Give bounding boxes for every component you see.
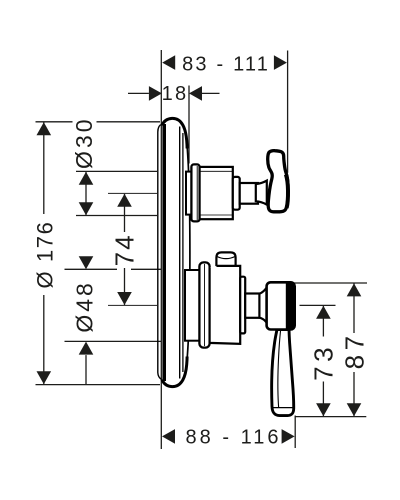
lever knob disc (267, 282, 295, 329)
wall extension line (160, 50, 162, 449)
bottom valve ring inner line (204, 264, 206, 346)
bottom valve stem (245, 294, 259, 318)
extension line sleeve bottom (Ø30) (76, 215, 157, 217)
escutcheon plate bottom edge (162, 357, 187, 387)
svg-text:88 - 116: 88 - 116 (186, 427, 282, 449)
dimension Ø30 arrow up (79, 172, 94, 185)
extension line handle front (83-111) (287, 51, 289, 173)
svg-text:74: 74 (110, 233, 140, 266)
dimension Ø48 arrow up (below) with tail (79, 342, 94, 355)
lever handle tip cap line (273, 407, 293, 409)
svg-text:Ø30: Ø30 (71, 116, 97, 168)
dimension Ø48 arrow down (above) (79, 256, 94, 269)
extension line knob top (87) (293, 282, 367, 284)
dimension 87 arrow down (347, 403, 362, 416)
dimension 73 arrow up (316, 306, 331, 319)
dimension 83-111 arrow right (274, 55, 287, 70)
extension line sleeve top (Ø30) (76, 170, 157, 172)
bottom valve button (216, 252, 235, 267)
bottom valve cap ring (240, 277, 245, 334)
dimension 87 arrow up (347, 283, 362, 296)
bottom valve ring (199, 262, 209, 347)
dimension 83-111 arrow left (162, 55, 175, 70)
centerline top valve (108, 192, 157, 194)
dimension 18 left outside arrow with tail (128, 92, 149, 94)
dimension 73 line (322, 306, 324, 416)
dimension Ø176 line (43, 123, 45, 385)
dimension 87 line (353, 283, 355, 416)
dimension Ø176 arrow up (37, 122, 52, 135)
dimension 18 right outside arrow with tail (189, 86, 202, 101)
dimension Ø176 arrow down (37, 371, 52, 384)
escutcheon plate back rim (158, 125, 162, 380)
top valve grip shading band (286, 175, 288, 209)
top valve cap (233, 177, 240, 210)
dimension 74 arrow down (117, 292, 132, 305)
extension line sleeve bottom (Ø48) (65, 340, 162, 342)
extension line lever bottom (73/87) (295, 416, 367, 418)
top valve barrel highlight lines (201, 171, 233, 215)
escutcheon plate top edge (162, 118, 187, 148)
lever handle arm (272, 330, 294, 416)
top valve hub flare (256, 181, 267, 205)
dimension 74 arrow up (117, 194, 132, 207)
bottom valve button inner arc (217, 257, 235, 259)
dimension 88-116 arrow right (282, 429, 295, 444)
svg-text:87: 87 (339, 331, 369, 369)
extension line plate front (18) (188, 86, 190, 164)
svg-text:Ø48: Ø48 (72, 280, 98, 332)
escutcheon plate inner contour 1 (179, 127, 181, 379)
bottom valve barrel (210, 266, 241, 344)
extension line plate top (Ø176) (36, 121, 161, 123)
extension line sleeve top (Ø48) (65, 268, 162, 270)
lever knob disc shading band (286, 283, 295, 330)
extension line lever tip (88-116) (294, 416, 296, 449)
svg-text:83 - 111: 83 - 111 (182, 54, 270, 76)
escutcheon plate front contour (187, 146, 190, 359)
lever knob collar (259, 288, 266, 323)
dimension Ø30 arrow down (79, 202, 94, 215)
top valve barrel (200, 167, 233, 219)
svg-text:18: 18 (162, 83, 189, 105)
dimension 73 arrow down (316, 403, 331, 416)
svg-text:Ø 176: Ø 176 (33, 221, 58, 289)
dimension Ø30 line (85, 172, 87, 215)
extension line plate bottom (Ø176) (36, 384, 161, 386)
dimension 88-116 arrow left (162, 429, 175, 444)
escutcheon plate inner contour 2 (182, 133, 184, 372)
top valve cross grip (268, 151, 288, 212)
top valve stem (240, 183, 258, 204)
centerline bottom valve left (108, 304, 157, 306)
top valve ring inner line (196, 166, 198, 220)
escutcheon plate back edge (162, 124, 166, 381)
svg-text:73: 73 (309, 343, 339, 381)
dimension 74 line (124, 194, 126, 305)
bottom valve tube (185, 270, 200, 341)
centerline bottom valve right (73 top line) (300, 304, 336, 306)
lever handle inner contour (278, 331, 281, 407)
top valve ring (191, 164, 199, 221)
top valve tube (186, 172, 192, 215)
